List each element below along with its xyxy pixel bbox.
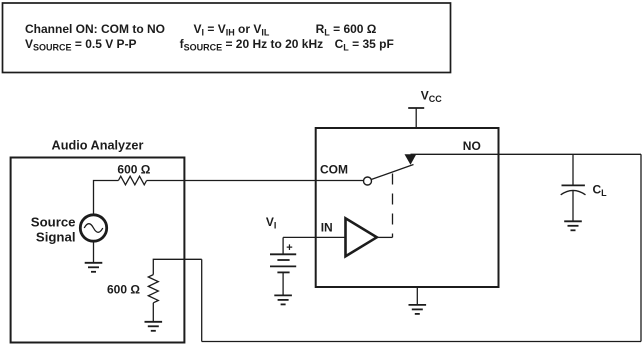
svg-text:VI: VI	[266, 215, 277, 231]
svg-text:Source: Source	[31, 215, 76, 230]
svg-text:RL = 600 Ω: RL = 600 Ω	[316, 22, 377, 38]
svg-text:Channel ON: COM to NO: Channel ON: COM to NO	[25, 22, 165, 36]
svg-text:VCC: VCC	[421, 88, 443, 104]
svg-text:Signal: Signal	[36, 229, 76, 244]
svg-text:CL = 35 pF: CL = 35 pF	[335, 37, 394, 53]
dashed control line	[392, 174, 394, 238]
wire source bottom to ground	[93, 241, 95, 263]
svg-text:600 Ω: 600 Ω	[117, 163, 150, 177]
svg-text:Audio Analyzer: Audio Analyzer	[52, 138, 144, 152]
ground (RL)	[145, 322, 163, 331]
wire return up to RL	[201, 259, 203, 341]
svg-text:VSOURCE = 0.5 V P-P: VSOURCE = 0.5 V P-P	[25, 37, 137, 53]
svg-text:IN: IN	[321, 220, 333, 234]
DUT box	[316, 128, 499, 287]
wire RL bottom to ground	[152, 303, 154, 322]
wire buffer output to switch	[377, 236, 393, 238]
Vcc power symbol	[408, 107, 424, 109]
capacitor CL	[561, 154, 586, 221]
wire battery to ground	[282, 272, 284, 295]
svg-text:VI = VIH or VIL: VI = VIH or VIL	[194, 22, 270, 38]
ground (battery)	[274, 295, 292, 304]
wire DUT ground stub	[416, 287, 418, 305]
switch lever	[371, 165, 413, 180]
svg-text:CL: CL	[593, 183, 608, 199]
resistor RL 600 ohm (vertical)	[148, 275, 158, 303]
battery VI source	[270, 237, 296, 272]
source signal sine source	[80, 215, 106, 241]
test conditions box	[3, 3, 451, 73]
wire Vcc stub	[415, 108, 417, 128]
ground (CL)	[564, 221, 582, 230]
wire bottom return	[202, 341, 641, 343]
resistor 600 ohm (source, horizontal)	[118, 176, 146, 185]
switch pole circle	[364, 177, 372, 185]
svg-text:COM: COM	[320, 163, 348, 177]
switch NO contact triangle	[405, 154, 417, 165]
Audio Analyzer box	[11, 158, 185, 343]
wire source top to resistor	[94, 181, 119, 215]
wire resistor to COM pin	[147, 180, 364, 182]
ground (source)	[85, 263, 103, 272]
svg-text:+: +	[286, 242, 292, 254]
wire IN	[283, 236, 345, 238]
wire NO to CL node	[411, 153, 642, 155]
svg-text:600 Ω: 600 Ω	[107, 282, 140, 296]
svg-text:fSOURCE = 20 Hz to 20 kHz: fSOURCE = 20 Hz to 20 kHz	[180, 37, 324, 53]
svg-text:NO: NO	[463, 139, 481, 153]
wire right return vertical	[640, 154, 642, 341]
buffer driver triangle	[346, 218, 377, 256]
ground (DUT)	[409, 305, 427, 314]
wire RL top corner	[153, 259, 201, 274]
